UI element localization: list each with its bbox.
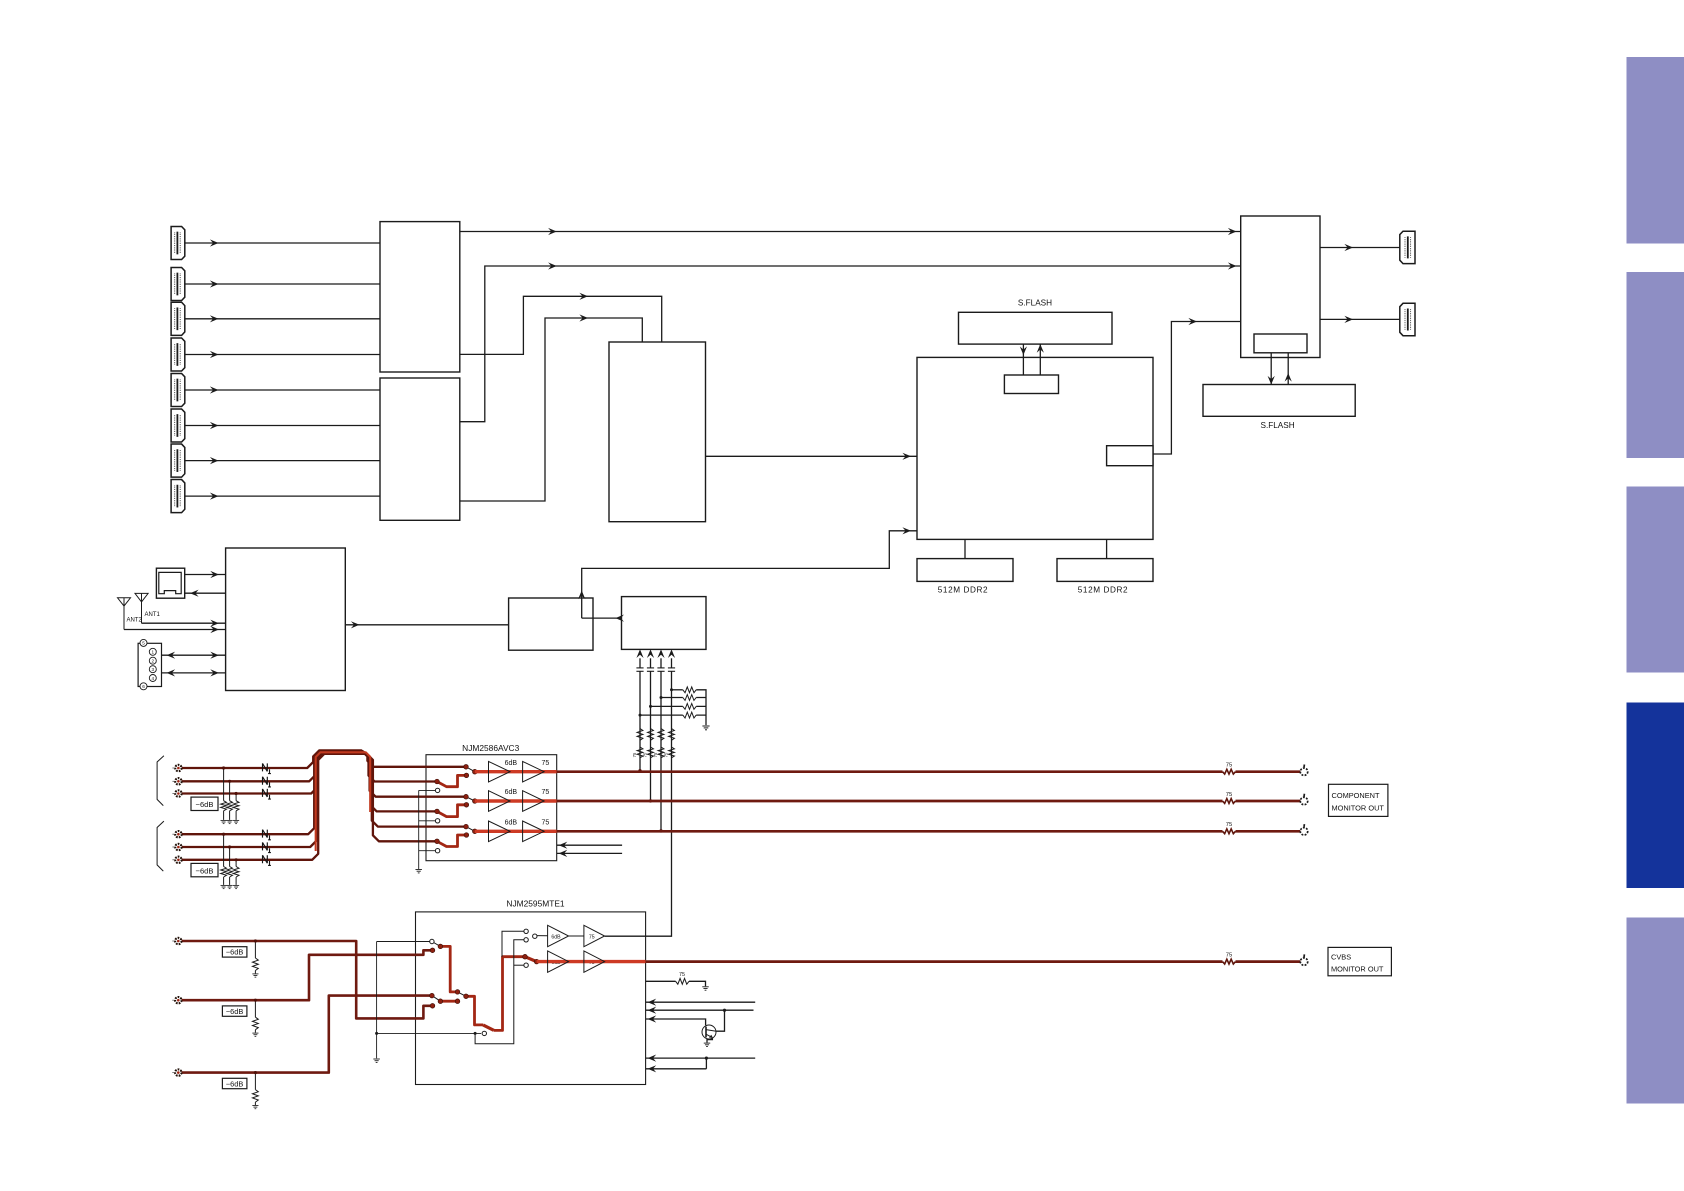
buffer 75 ch1	[523, 761, 545, 782]
svg-text:75: 75	[542, 760, 550, 767]
wire cvbs1 down to Y line	[639, 671, 641, 771]
dot S1 common	[438, 944, 443, 949]
svg-text:75: 75	[589, 934, 595, 940]
wire resistor ladder common	[696, 690, 706, 725]
arrow video in 4	[668, 649, 675, 658]
ground Q1	[704, 1043, 710, 1046]
SoC output interface sub-block	[1107, 446, 1153, 466]
red lever bottom	[483, 1025, 494, 1031]
arrow DIN3 left	[167, 669, 176, 676]
transistor Q1	[702, 1025, 716, 1039]
arrow aux1	[559, 842, 568, 849]
tuner / front-end block U5	[226, 548, 346, 691]
svg-text:5: 5	[142, 641, 145, 646]
svg-text:MONITOR OUT: MONITOR OUT	[1332, 804, 1385, 813]
wire NJM2586 aux out 2	[557, 852, 622, 854]
junction cvbs2/Pb	[649, 799, 652, 802]
IC NJM2586AVC3 block	[426, 755, 557, 861]
RCA input jack CVBS 3	[172, 1069, 181, 1075]
dot amp select	[523, 954, 528, 959]
wire component input 6 routing	[178, 754, 437, 860]
wire tuner to optical	[185, 592, 226, 594]
svg-text:75: 75	[663, 752, 668, 757]
switch SW3 (NJM2586 ch3)	[466, 827, 475, 832]
op-amp 6dB ch2	[489, 791, 511, 812]
arrow DIN1 right	[210, 652, 219, 659]
wire alt contact lower branch	[514, 964, 524, 966]
wire switch ch1 alt contact	[437, 775, 466, 786]
wire control 2	[646, 1009, 754, 1011]
HDMI input connector J1	[171, 226, 185, 259]
dot chain C1	[438, 999, 443, 1004]
junction alt path	[474, 1032, 477, 1035]
sidebar tab bar 5	[1627, 918, 1684, 1104]
ground termination	[702, 987, 708, 990]
op-amp 6dB ch1	[489, 761, 511, 782]
resistor R14	[683, 712, 696, 718]
arrow HDMI out 1	[1344, 244, 1353, 251]
arrow U1 out2	[579, 293, 588, 300]
resistor shunt 4	[221, 867, 227, 878]
wire to R13	[651, 705, 683, 707]
contact dot ch3 common	[473, 829, 478, 834]
IC NJM2595MTE1 block	[416, 912, 646, 1085]
svg-text:75: 75	[632, 752, 637, 757]
wire DIN pin3 to tuner	[162, 672, 226, 674]
dot chain A	[455, 990, 460, 995]
RCA output jack Y	[1300, 765, 1307, 776]
arrow HDMI5	[210, 386, 219, 393]
wire U3 to SoC	[706, 455, 918, 457]
wire component input 2 routing	[178, 752, 466, 797]
RCA output jack CVBS	[1300, 954, 1307, 965]
ground shunt 6	[233, 885, 239, 888]
svg-text:ANT2: ANT2	[127, 618, 143, 624]
arrow U6 up	[578, 591, 585, 600]
wire U2 out2 to video block U3	[460, 318, 643, 501]
wire termination to gnd	[689, 981, 706, 986]
contact dot ch3 in2	[435, 839, 440, 844]
resistor shunt CVBS2	[253, 1017, 259, 1029]
junction	[670, 688, 673, 691]
contact dot ch1 in2	[435, 779, 440, 784]
wire SoC to HDMI TX control	[1153, 322, 1241, 455]
wire riser to output amp	[494, 957, 525, 1031]
arrow HDMI7	[210, 457, 219, 464]
wire U4 flash read	[1287, 353, 1289, 385]
wire SoC flash read	[1039, 344, 1041, 375]
wire switch chain B	[466, 996, 483, 1025]
resistor shunt 2	[227, 801, 233, 811]
wire mute bus NJM2586	[418, 790, 420, 869]
contact dot ch2 alt	[464, 803, 469, 808]
wire shunt 1 to gnd	[223, 811, 225, 820]
wire U6 TS out to SoC	[582, 531, 917, 618]
resistor R22 (series)	[648, 729, 654, 741]
svg-text:75: 75	[679, 972, 685, 978]
wire ANT2 to tuner	[124, 629, 226, 631]
junction tap 6	[235, 858, 238, 861]
capacitor C4	[668, 668, 675, 671]
capacitor C1	[636, 668, 643, 671]
ground shunt CVBS1	[252, 974, 258, 977]
HDMI input connector J3	[171, 302, 185, 335]
wire shunt tap 5	[229, 847, 231, 867]
arrow down U4 flash	[1268, 376, 1275, 385]
arrow control 2	[648, 1007, 657, 1014]
resistor 75 ohm Y	[1223, 769, 1236, 774]
attenuator pad box -6dB (2)	[191, 863, 218, 876]
arrow DIN1 left	[167, 652, 176, 659]
wire HDMI7 to switch	[185, 460, 380, 462]
svg-text:3: 3	[152, 667, 155, 672]
wire U2 out1 to HDMI TX	[460, 266, 1241, 422]
wire Q1 collector	[716, 1010, 724, 1031]
junction tap 1	[222, 766, 225, 769]
wire amp path ch2	[475, 799, 557, 802]
contact dot ch3 alt	[464, 833, 469, 838]
RCA input jack component 4	[172, 831, 181, 837]
wire component out Pb (2)	[1236, 800, 1301, 803]
wire amp path ch3	[475, 830, 557, 833]
buffer 75 (upper, to SoC)	[584, 925, 605, 946]
arrow into U6	[615, 615, 624, 622]
arrow down SoC flash	[1020, 346, 1027, 355]
demodulator block U6	[509, 598, 593, 650]
wire NJM2586 aux out 1	[557, 844, 622, 846]
wire component out Pr	[557, 830, 1223, 833]
main SoC IC block	[917, 357, 1153, 539]
serial flash memory block (U4)	[1203, 385, 1355, 417]
resistor R34 (75 ohm)	[669, 747, 675, 758]
wire shunt 6 to gnd	[235, 877, 237, 885]
wire bus to S1 contact	[377, 941, 430, 943]
arrow U2 out2	[579, 314, 588, 321]
wire video in 1 upper	[639, 658, 641, 667]
wire HDMI8 to switch	[185, 495, 380, 497]
wire shunt tap 1	[223, 768, 225, 801]
ferrite bead L1	[263, 763, 271, 773]
svg-text:−6dB: −6dB	[226, 1007, 244, 1016]
arrow U2 out1 mid	[548, 262, 557, 269]
wire to upper amp contact	[502, 931, 524, 956]
junction control 4	[705, 1057, 708, 1060]
HDMI output connector J10	[1400, 303, 1415, 335]
RCA output jack Pr	[1300, 824, 1307, 835]
junction collector/control2	[723, 1009, 726, 1012]
wire HDMI4 to switch	[185, 354, 380, 356]
ferrite bead L4	[263, 830, 271, 840]
wire HDMI1 to switch	[185, 242, 380, 244]
resistor 75 ohm Pb	[1223, 799, 1236, 804]
wire component input 4 routing	[178, 751, 437, 834]
arrow aux2	[559, 850, 568, 857]
RCA output jack Pb	[1300, 794, 1307, 805]
open contact below amp	[524, 963, 528, 967]
svg-text:75: 75	[542, 789, 550, 796]
arrow optical out	[190, 590, 199, 597]
wire U4 to HDMI out 1	[1320, 247, 1400, 249]
flash interface sub-block in U4	[1254, 334, 1307, 353]
HDMI switch block U2 (inputs 5-8)	[380, 378, 460, 520]
wire CVBS amp path	[537, 960, 646, 963]
wire switch chain A	[440, 946, 457, 992]
resistor shunt 5	[227, 867, 233, 878]
ground shunt 4	[221, 885, 227, 888]
arrow into SoC TS in	[902, 527, 911, 534]
HDMI output connector J9	[1400, 231, 1415, 263]
arrow HDMI6	[210, 422, 219, 429]
svg-text:MONITOR OUT: MONITOR OUT	[1331, 965, 1384, 974]
switch lever S2 (black)	[458, 992, 467, 996]
resistor shunt CVBS3	[253, 1090, 259, 1103]
svg-text:−6dB: −6dB	[226, 1079, 244, 1088]
junction	[639, 714, 642, 717]
ferrite bead L6	[263, 855, 271, 865]
RCA input jack component 6	[172, 857, 181, 863]
wire alt contact path	[475, 940, 524, 1044]
junction cvbs1/Y	[638, 769, 641, 772]
wire control 5	[646, 1068, 707, 1070]
memory block 512M DDR2 #2	[1057, 559, 1153, 582]
wire open contact ch2 to bus	[419, 820, 436, 822]
svg-text:6dB: 6dB	[505, 789, 518, 796]
wire control 3 to transistor base	[646, 1019, 706, 1025]
bracket input group 2	[157, 821, 164, 871]
attenuator pad box -6dB CVBS3	[222, 1078, 247, 1088]
resistor 75 termination	[676, 978, 689, 984]
optical digital connector	[156, 568, 184, 598]
svg-text:512M DDR2: 512M DDR2	[1078, 586, 1128, 595]
resistor shunt 3	[233, 801, 239, 811]
switch lever S3 (black)	[432, 996, 441, 1002]
arrow HDMI out 2	[1344, 316, 1353, 323]
HDMI input connector J8	[171, 480, 185, 513]
ground mute bus NJM2595	[373, 1059, 379, 1062]
open contact upper amp 1	[524, 929, 528, 933]
ferrite bead L2	[263, 777, 271, 787]
arrow HDMI3	[210, 315, 219, 322]
RCA input jack component 5	[172, 844, 181, 850]
dot amp in	[534, 959, 539, 964]
wire open contact ch1 to bus	[419, 789, 436, 791]
junction tap 4	[222, 833, 225, 836]
ferrite bead L3	[263, 789, 271, 799]
buffer 75 ch2	[523, 791, 545, 812]
video processor block U3	[609, 342, 706, 522]
svg-text:−6dB: −6dB	[196, 800, 214, 809]
wire U1 out2 to video block U3	[460, 296, 662, 354]
resistor shunt CVBS1	[253, 958, 259, 971]
label box COMPONENT MONITOR OUT	[1329, 784, 1388, 816]
contact dot ch3 in1	[464, 824, 469, 829]
arrow HDMI4	[210, 351, 219, 358]
wire component out Y (2)	[1236, 770, 1301, 773]
resistor R32 (75 ohm)	[648, 747, 654, 758]
resistor 75 ohm CVBS	[1223, 959, 1236, 964]
buffer 75 ch3	[523, 821, 545, 842]
contact dot ch2 in1	[464, 794, 469, 799]
wire CVBS monitor out	[646, 960, 1223, 963]
arrow U3 to SoC	[902, 453, 911, 460]
dot in3 contact	[430, 993, 435, 998]
resistor R33 (75 ohm)	[658, 747, 664, 758]
op-amp 6dB (upper, to SoC)	[548, 925, 569, 946]
svg-text:512M DDR2: 512M DDR2	[938, 586, 988, 595]
HDMI input connector J2	[171, 267, 185, 300]
arrow DIN3 right	[210, 669, 219, 676]
open contact ch2	[435, 819, 439, 823]
dot in1 contact	[430, 1004, 435, 1009]
svg-text:S.FLASH: S.FLASH	[1261, 421, 1295, 430]
wire shunt CVBS2	[254, 1000, 256, 1017]
wire SoC to DDR2 #1	[964, 539, 966, 558]
wire U1 out1 to HDMI TX	[460, 231, 1241, 233]
antenna ANT1	[135, 593, 148, 623]
arrow optical in	[210, 571, 219, 578]
wire shunt CVBS3	[254, 1073, 256, 1090]
ground shunt 1	[221, 820, 227, 823]
svg-text:6dB: 6dB	[505, 820, 518, 827]
wire component input 1 routing	[178, 750, 466, 768]
memory block 512M DDR2 #1	[917, 559, 1013, 582]
ground shunt 3	[233, 820, 239, 823]
switch lever S4 (red output select)	[525, 957, 537, 962]
wire switch ch3 alt contact	[437, 835, 466, 847]
svg-text:CVBS: CVBS	[1331, 952, 1351, 961]
junction	[660, 696, 663, 699]
wire trunk core highlight	[316, 752, 371, 851]
arrow HDMI1	[210, 239, 219, 246]
junction tap 5	[228, 845, 231, 848]
junction tap 3	[235, 792, 238, 795]
HDMI input connector J4	[171, 338, 185, 371]
junction cvbs3/Pr	[659, 829, 662, 832]
svg-text:75: 75	[1226, 763, 1232, 769]
resistor R21 (series)	[637, 729, 643, 741]
svg-text:1: 1	[152, 650, 155, 655]
arrow video in 2	[647, 649, 654, 658]
ground shunt CVBS2	[252, 1033, 258, 1036]
op-amp 6dB (CVBS out)	[548, 951, 569, 972]
dot chain C2	[455, 999, 460, 1004]
wire switch chain C	[440, 1000, 457, 1003]
svg-text:COMPONENT: COMPONENT	[1332, 791, 1381, 800]
wire CVBS input 3 routing	[178, 996, 432, 1073]
arrow video in 3	[657, 649, 664, 658]
dot in2 contact	[430, 948, 435, 953]
wire amp path ch1	[475, 770, 557, 773]
op-amp 6dB ch3	[489, 821, 511, 842]
arrow video in 1	[636, 649, 643, 658]
svg-text:75: 75	[1226, 822, 1232, 828]
wire SoC to DDR2 #2	[1106, 539, 1108, 558]
open contact upper amp alt	[524, 938, 528, 942]
wire mute bus NJM2595	[376, 942, 378, 1059]
wire to R14	[640, 714, 683, 716]
upper amp lever	[537, 935, 548, 937]
arrow SoC to HDMI TX	[1188, 318, 1197, 325]
attenuator pad box -6dB CVBS1	[222, 947, 247, 957]
contact dot ch2 common	[473, 799, 478, 804]
capacitor C3	[657, 668, 664, 671]
sidebar tab bar 3	[1627, 487, 1684, 673]
arrow up U4 flash	[1285, 373, 1292, 382]
dot chain B	[464, 994, 469, 999]
wire video in 3 upper	[660, 658, 662, 667]
wire shunt CVBS1	[254, 941, 256, 958]
attenuator pad box -6dB (1)	[191, 797, 218, 810]
svg-text:NJM2595MTE1: NJM2595MTE1	[506, 899, 565, 909]
wire 75 termination	[646, 980, 676, 982]
RCA input jack component 1	[172, 765, 181, 771]
wire video in 4 upper	[671, 658, 673, 667]
wire shunt tap 4	[223, 834, 225, 866]
wire to R12	[661, 697, 683, 699]
bracket input group 1	[157, 756, 164, 806]
arrow ANT2	[210, 626, 219, 633]
RCA input jack component 3	[172, 790, 181, 796]
HDMI input connector J7	[171, 444, 185, 477]
resistor R24 (series)	[669, 729, 675, 741]
wire shunt 4 to gnd	[223, 877, 225, 885]
RCA input jack CVBS 1	[172, 938, 181, 944]
svg-text:75: 75	[653, 752, 658, 757]
sidebar tab bar 2	[1627, 272, 1684, 458]
arrow up SoC flash	[1037, 344, 1044, 353]
wire component out Pb	[557, 800, 1223, 803]
wire control 1	[646, 1001, 756, 1003]
RCA input jack component 2	[172, 778, 181, 784]
junction shunt CVBS2	[254, 999, 257, 1002]
wire HDMI3 to switch	[185, 318, 380, 320]
svg-text:S.FLASH: S.FLASH	[1018, 299, 1052, 308]
resistor R31 (75 ohm)	[637, 747, 643, 758]
contact dot ch2 in2	[435, 809, 440, 814]
svg-text:2: 2	[152, 659, 155, 664]
open contact ch3	[435, 849, 439, 853]
svg-text:75: 75	[642, 752, 647, 757]
arrow HDMI8	[210, 493, 219, 500]
wire between upper amps	[569, 935, 584, 937]
svg-text:4: 4	[152, 676, 155, 681]
wire to R11	[672, 689, 683, 691]
wire U7 to U6	[582, 617, 622, 619]
resistor R11	[683, 687, 696, 693]
resistor R12	[683, 695, 696, 701]
wire component out Y	[557, 770, 1223, 773]
wire component input 3 routing	[178, 753, 466, 826]
junction tap 2	[228, 780, 231, 783]
arrow control 3	[648, 1015, 657, 1022]
wire ANT1 to tuner	[142, 622, 226, 624]
wire SoC flash write	[1022, 344, 1024, 375]
open contact ch1	[435, 788, 439, 792]
junction bus	[375, 1032, 378, 1035]
sidebar tab bar 1	[1627, 57, 1684, 244]
RCA input jack CVBS 2	[172, 997, 181, 1003]
label box CVBS MONITOR OUT	[1328, 947, 1391, 975]
arrow control 1	[648, 999, 657, 1006]
video A/D block U7	[622, 597, 707, 650]
wire DIN pin1 to tuner	[162, 654, 226, 656]
resistor R13	[683, 704, 696, 710]
wire control 4-5 link	[705, 1058, 707, 1069]
wire tuner IF out to demod	[345, 624, 508, 626]
serial flash memory block (SoC)	[959, 312, 1113, 344]
svg-text:ANT1: ANT1	[145, 612, 161, 618]
wire U4 flash write	[1270, 353, 1272, 385]
